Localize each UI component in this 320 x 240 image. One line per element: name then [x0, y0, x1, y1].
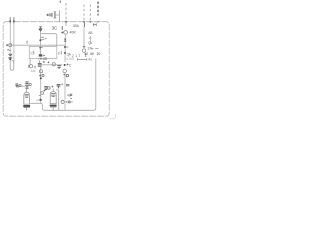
svg-text:Ua: Ua [31, 69, 35, 73]
svg-text:Qk: Qk [67, 52, 72, 56]
svg-text:C: C [58, 51, 61, 55]
svg-text:Qk: Qk [88, 41, 92, 45]
svg-text:C: C [69, 63, 72, 67]
svg-text:C: C [31, 51, 34, 55]
svg-text:AB: AB [88, 31, 92, 35]
svg-text:40: 40 [90, 52, 94, 56]
svg-text:2: 2 [72, 54, 74, 58]
svg-text:1: 1 [78, 53, 80, 57]
svg-text:30k: 30k [73, 24, 79, 28]
svg-text:3C: 3C [52, 26, 58, 31]
svg-text:1: 1 [75, 54, 77, 58]
svg-text:40R: 40R [70, 30, 77, 34]
svg-text:-:0.05: -:0.05 [38, 57, 47, 61]
svg-text:10: 10 [96, 52, 100, 56]
svg-text:4o: 4o [88, 58, 92, 62]
